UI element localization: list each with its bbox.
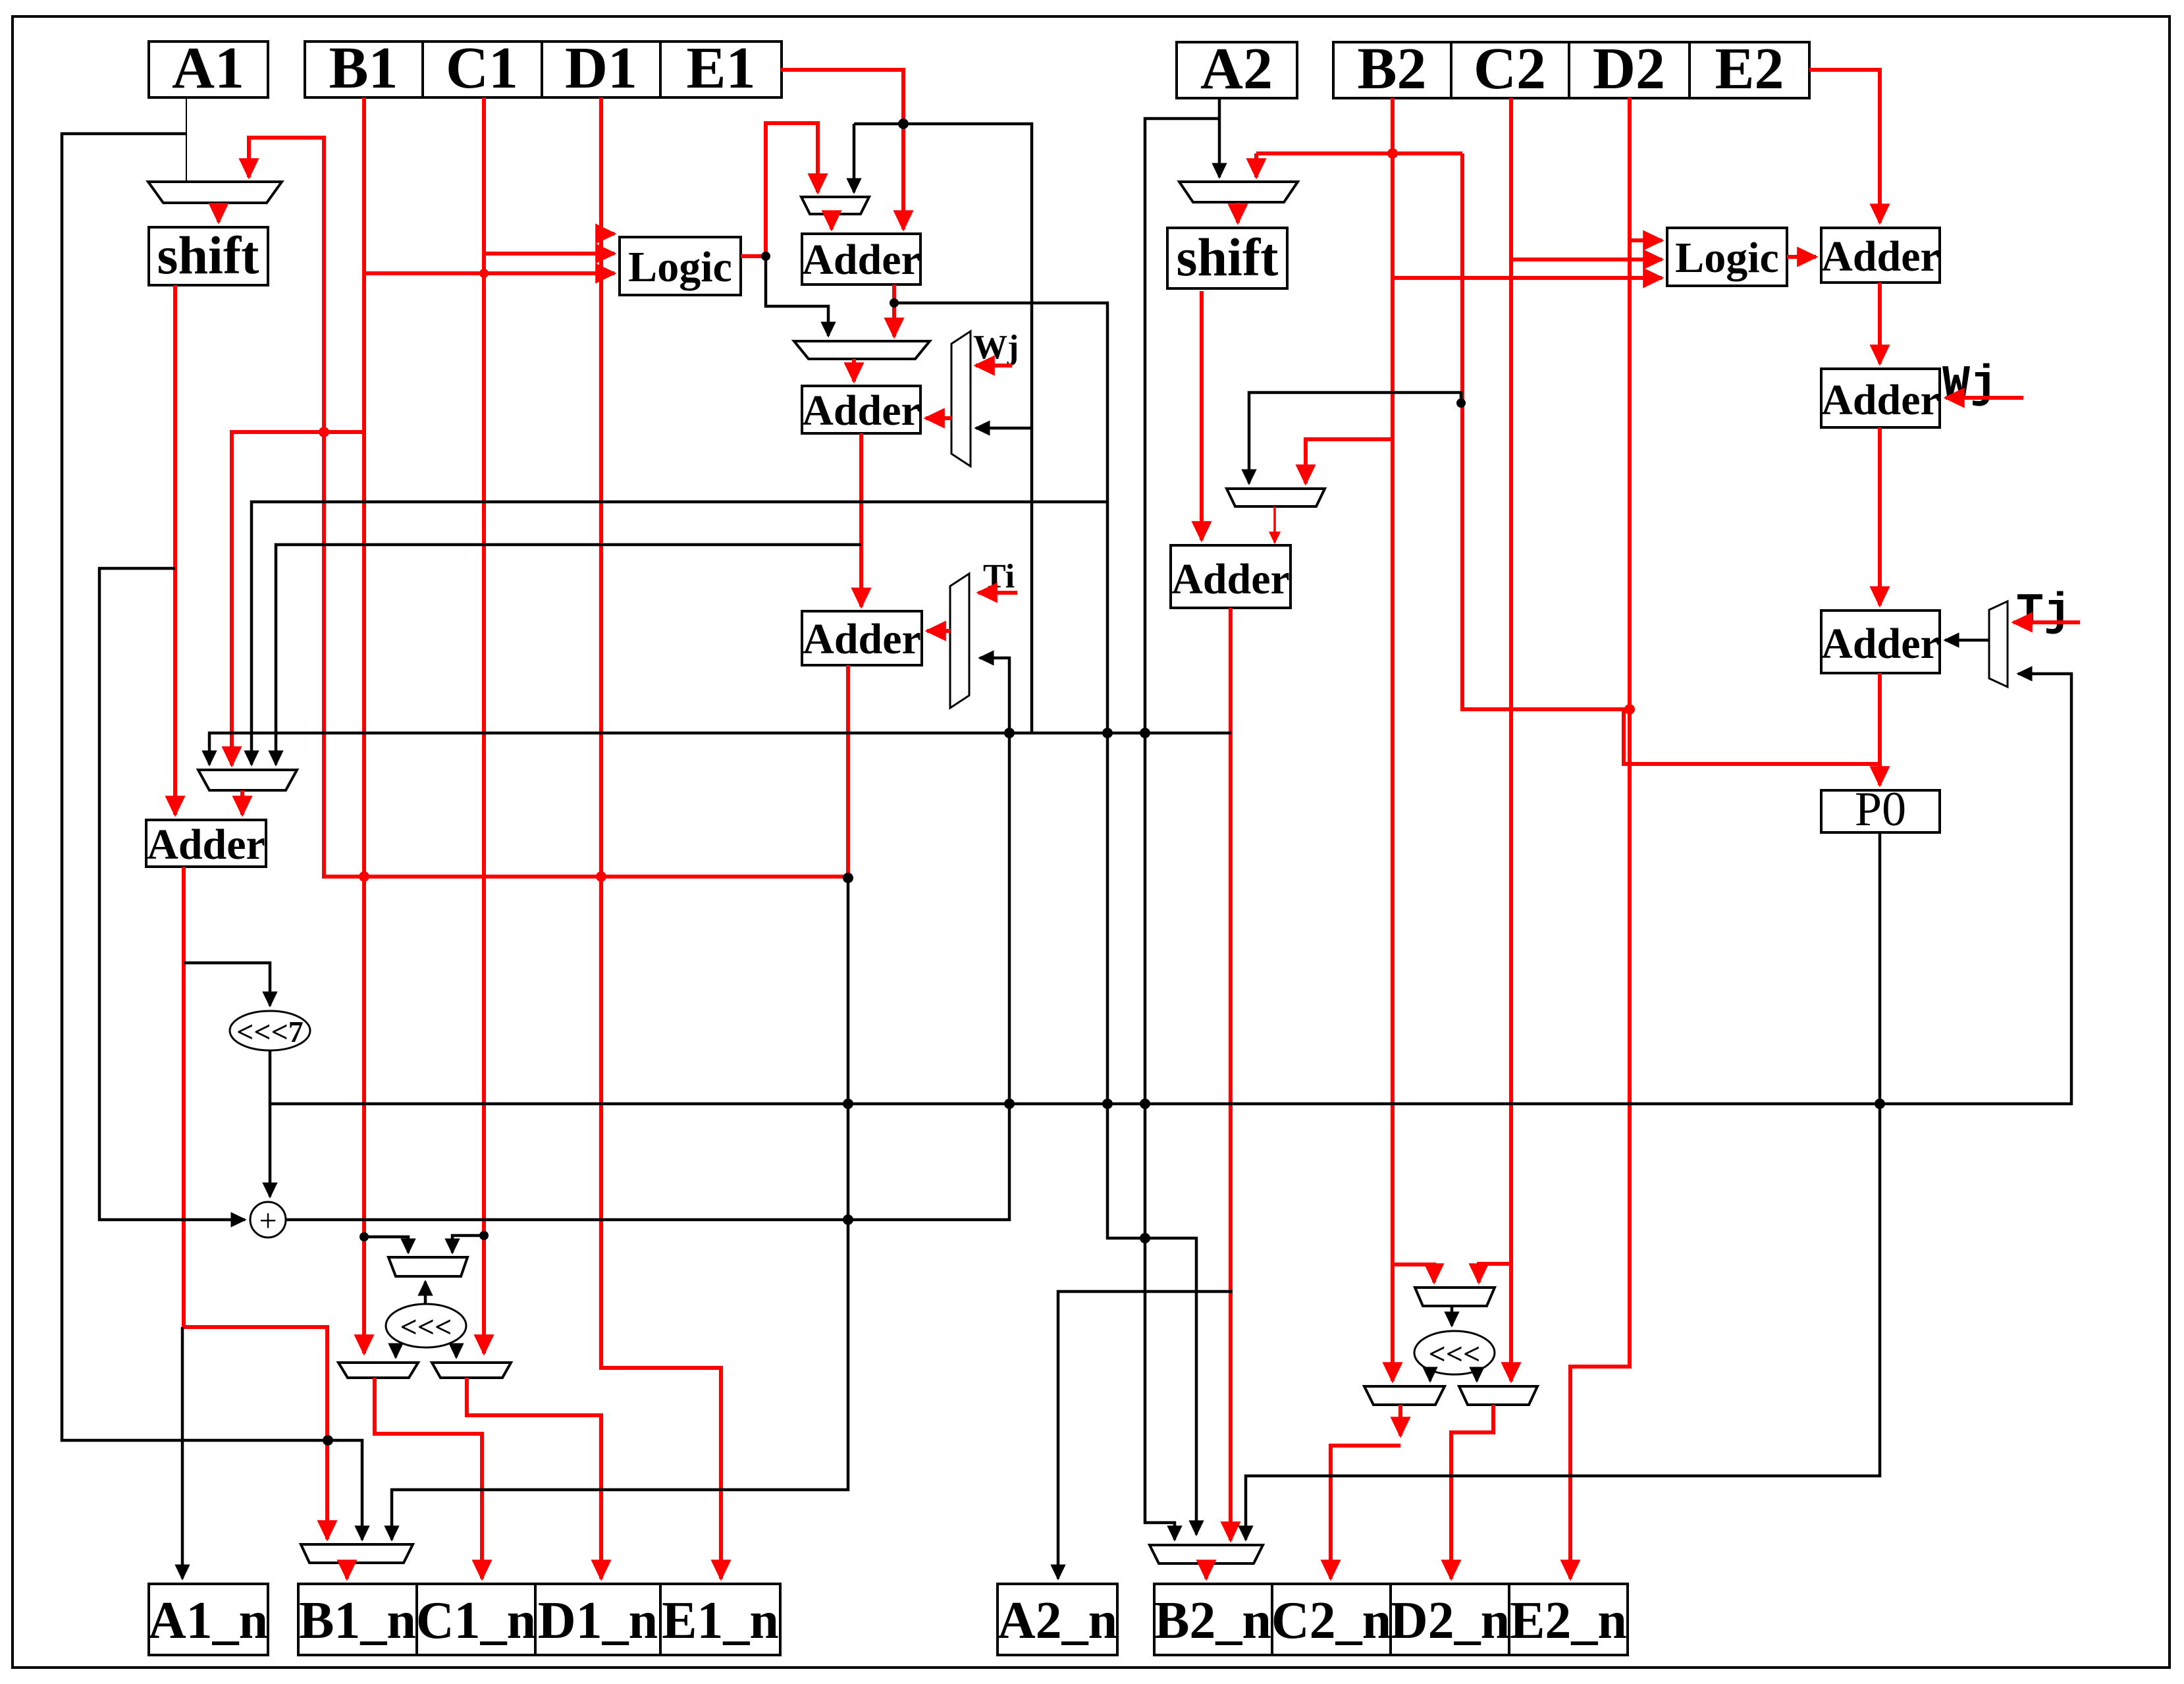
wire A1 stub to mux M1 xyxy=(186,97,187,182)
rotate left 7 unit xyxy=(230,1011,310,1050)
wire B1 tap to mux M7 input 1 xyxy=(364,1237,408,1253)
junction dot H3 at x1533 xyxy=(1004,1099,1015,1109)
svg-text:D1: D1 xyxy=(565,36,637,101)
wire C2 column xyxy=(1509,98,1513,1381)
shift unit right xyxy=(1167,227,1287,288)
junction dot B2 at 230 xyxy=(1387,148,1398,159)
svg-text:D2_n: D2_n xyxy=(1390,1592,1510,1650)
wire A1 branch down left side to mux M10 xyxy=(62,134,362,1540)
rotate left unit (right half) xyxy=(1414,1331,1495,1374)
wire Adder U6 output to Adder U7 xyxy=(1878,427,1882,605)
svg-text:D2: D2 xyxy=(1593,36,1665,101)
junction dot Logic branch corner xyxy=(761,252,770,261)
wire D1 tap to Logic input 1 xyxy=(601,232,614,236)
wire mux M16 output to Adder U3 xyxy=(927,629,950,633)
wire C2 tap to Logic right input 2 xyxy=(1511,258,1662,261)
svg-text:Adder: Adder xyxy=(803,615,921,663)
wire D1 column to E1_n xyxy=(601,97,721,1579)
svg-text:E2_n: E2_n xyxy=(1510,1592,1627,1650)
svg-text:B2_n: B2_n xyxy=(1154,1592,1271,1650)
register B1 xyxy=(305,36,423,101)
wire mux M1 output to shift left xyxy=(217,203,221,222)
register E2_n xyxy=(1509,1584,1628,1655)
wire Wj input left xyxy=(976,364,1012,367)
wire E2 to Adder U5 xyxy=(1809,70,1880,223)
wire plus output to mux M16 lower input xyxy=(286,658,1009,1220)
svg-text:A2: A2 xyxy=(1200,36,1273,101)
wire B2 tap to mux M11 input 1 xyxy=(1393,1264,1434,1282)
junction dot H3 at x1288 xyxy=(843,1099,853,1109)
junction dot mux M5 tap on B2 net xyxy=(1456,398,1466,408)
wire mux M17 output to Adder U7 xyxy=(1945,639,1989,642)
wire Adder U2 output to Adder U3 xyxy=(859,433,863,607)
wire B1 tap to mux M6 input 2 xyxy=(232,432,364,765)
junction dot mux M7 tap B1 xyxy=(360,1232,369,1241)
mux M8 (left, feeds C1_n) xyxy=(338,1363,418,1378)
mux M7 (left rotate select) xyxy=(388,1257,467,1276)
svg-text:A2_n: A2_n xyxy=(998,1592,1117,1650)
junction dot feedback at x1288 xyxy=(843,873,853,883)
wire Adder U3 output feedback to B1 net and mux M1 xyxy=(249,138,848,877)
wire B2 net tap to mux M5 input 1 xyxy=(1249,393,1461,483)
wire mux M3 output to Adder U1 xyxy=(830,214,834,229)
register D2 xyxy=(1569,36,1690,101)
wire P0 output to mux M14 input 4 xyxy=(1246,832,1880,1540)
mux M2 (A2 select) xyxy=(1179,182,1298,202)
register A1 xyxy=(149,36,268,101)
Adder U4 (left mid) xyxy=(146,820,266,869)
svg-text:shift: shift xyxy=(157,225,259,285)
register D1 xyxy=(542,36,660,101)
wire A1_n feed xyxy=(181,1327,184,1579)
Adder U7 (right Tj) xyxy=(1821,611,1940,673)
svg-text:+: + xyxy=(259,1203,277,1238)
Adder U1 (left top) xyxy=(802,234,920,285)
wire Logic left output to mux M3 xyxy=(741,123,818,256)
svg-text:A1: A1 xyxy=(172,36,244,101)
shift unit left xyxy=(149,225,268,285)
Logic unit left xyxy=(620,237,741,295)
mux M17 (Tj vertical mux) xyxy=(1989,601,2008,687)
svg-text:P0: P0 xyxy=(1855,782,1906,836)
wire mux M2 output to shift right xyxy=(1236,203,1240,223)
wire Adder U3 feedback branch to mux M10 input 3 xyxy=(392,878,848,1540)
junction dot H3 at P0 column xyxy=(1875,1099,1885,1109)
svg-text:A1_n: A1_n xyxy=(148,1592,268,1650)
register E1 xyxy=(660,36,782,101)
wire B2 tap to Logic right input 3 xyxy=(1393,276,1662,280)
mux M3 (small above Adder U1) xyxy=(801,197,869,214)
svg-text:<<<7: <<<7 xyxy=(236,1015,304,1048)
register C1_n xyxy=(416,1584,536,1655)
wire Ti input xyxy=(978,591,1017,595)
svg-text:C1: C1 xyxy=(446,36,518,101)
wire A2 branch to mux M14 input 1 xyxy=(1145,119,1219,1540)
wire B1 tap to Logic input 3 xyxy=(364,271,614,275)
junction dot H2 at x1533 xyxy=(1004,728,1015,738)
wire rotate 7 long feedback to mux M17 lower input xyxy=(270,674,2071,1104)
Adder U6 (right Wj) xyxy=(1821,369,1940,427)
rotate left unit (left half) xyxy=(386,1304,466,1347)
wire H2 cross feedback to mux M6 input 1 xyxy=(209,733,1231,765)
register A2 xyxy=(1177,36,1297,101)
wire A2 stub to mux M2 xyxy=(1218,98,1221,177)
wire mux M6 output to Adder U4 xyxy=(240,790,244,815)
wire mux M11 output to rotate right xyxy=(1451,1306,1454,1326)
wire A2_n feed from Adder U8 output net xyxy=(1058,1291,1233,1579)
wire Logic right output to Adder U5 xyxy=(1787,255,1816,259)
svg-text:Adder: Adder xyxy=(802,236,920,284)
junction dot B1 at feedback row xyxy=(359,871,369,882)
wire D2 tap to Logic right input 1 xyxy=(1630,238,1662,242)
mux M1 (A1 select) xyxy=(148,182,282,203)
mux M4 (wide above Adder U2) xyxy=(794,341,930,359)
wire rotate left to mux M7 reversed arrow xyxy=(424,1282,427,1305)
register E2 xyxy=(1690,36,1809,101)
junction dot B1 tap at 656 xyxy=(319,427,329,437)
svg-text:Wj: Wj xyxy=(973,329,1019,366)
wire Adder U1 output to mux M4 xyxy=(892,285,896,337)
wire E1 black branch to mux M3 input 2 xyxy=(853,124,856,192)
register E1_n xyxy=(660,1584,780,1655)
mux M13 (right, feeds D2_n) xyxy=(1459,1386,1537,1405)
Adder U3 (left Ti) xyxy=(802,611,922,665)
junction dot H2 at x1682 xyxy=(1102,728,1113,738)
wire rotate right output left branch to mux M12 xyxy=(1429,1373,1432,1381)
wire mux M6 input 3 xyxy=(252,502,1107,765)
mux M5 (above Adder U8) xyxy=(1227,489,1325,506)
wire mux M15 output to Adder U2 xyxy=(926,416,951,420)
wire B2 tap long branch to Adder U7 input net xyxy=(1256,153,1878,764)
wire Adder U8 output to mux M14 xyxy=(1229,608,1233,1540)
svg-text:Adder: Adder xyxy=(802,387,920,435)
wire mux M9 output to D1_n xyxy=(467,1378,601,1579)
svg-text:Adder: Adder xyxy=(1171,555,1290,603)
svg-text:<<<: <<< xyxy=(400,1310,452,1344)
svg-text:Ti: Ti xyxy=(983,558,1015,595)
wire rotate right output right branch to mux M13 xyxy=(1476,1373,1479,1381)
mux M11 (right rotate select) xyxy=(1415,1288,1495,1306)
wire branch to mux M15 lower input xyxy=(976,427,1032,430)
Adder U2 (left Wj) xyxy=(802,386,920,435)
wire mux M13 output to D2_n xyxy=(1451,1405,1493,1579)
wire C2 tap to mux M11 input 2 xyxy=(1479,1264,1511,1282)
wire mux M8 output to C1_n xyxy=(375,1378,482,1579)
junction dot Adder U1 branch xyxy=(890,298,899,308)
wire mux M10 output to B1_n xyxy=(345,1563,349,1579)
svg-text:Logic: Logic xyxy=(628,243,732,291)
wire shift-out tap to plus circle xyxy=(99,568,245,1220)
svg-text:D1_n: D1_n xyxy=(538,1592,658,1650)
register P0 xyxy=(1821,782,1940,836)
wire D2 column to E2_n xyxy=(1570,97,1630,1579)
wire B1 column xyxy=(362,97,366,1353)
Adder U5 (right top) xyxy=(1821,228,1940,283)
wire B2 column xyxy=(1391,98,1395,1381)
svg-text:Adder: Adder xyxy=(1821,376,1940,424)
wire mux M12 horizontal to C2_n xyxy=(1331,1446,1400,1579)
register B2_n xyxy=(1154,1584,1272,1655)
junction dot mux M7 tap C1 xyxy=(479,1231,489,1240)
register B2 xyxy=(1333,36,1451,101)
wire mux M14 output to B2_n xyxy=(1204,1563,1208,1579)
svg-text:B1_n: B1_n xyxy=(299,1592,416,1650)
svg-text:E1: E1 xyxy=(686,36,755,101)
svg-text:B2: B2 xyxy=(1357,36,1426,101)
wire Adder U7 output to P0 xyxy=(1878,673,1882,785)
junction dot A1 line at x498 xyxy=(323,1435,333,1446)
junction dot D1 at feedback row xyxy=(596,871,606,882)
mux M12 (right, feeds C2_n) xyxy=(1364,1386,1445,1405)
register A2_n xyxy=(998,1584,1117,1655)
junction dot B1 at Logic row crossing C1 xyxy=(479,269,489,278)
register C2 xyxy=(1451,36,1569,101)
svg-text:Adder: Adder xyxy=(1821,620,1940,668)
mux M16 (Ti vertical mux) xyxy=(950,574,969,708)
svg-text:C1_n: C1_n xyxy=(416,1592,536,1650)
register C2_n xyxy=(1271,1584,1391,1655)
wire rotate 7 output to plus circle xyxy=(269,1050,272,1197)
wire E1 black branch down to H2 xyxy=(854,124,1032,733)
junction dot plus-out at x1288 xyxy=(843,1214,853,1225)
register D1_n xyxy=(535,1584,660,1655)
Logic unit right xyxy=(1667,228,1787,286)
wire Tj input xyxy=(2013,620,2080,624)
wire C1 tap to mux M7 input 2 xyxy=(452,1236,484,1253)
wire rotate left output left branch to mux M8 xyxy=(394,1345,398,1357)
junction dot H3 at x1739 xyxy=(1140,1099,1150,1109)
Adder U8 (right mid) xyxy=(1171,545,1291,608)
svg-text:C2_n: C2_n xyxy=(1271,1592,1391,1650)
svg-text:Wj: Wj xyxy=(1942,359,1998,411)
wire mux M5 output to Adder U8 xyxy=(1273,506,1276,543)
junction dot H2 at x1739 xyxy=(1140,728,1150,738)
register D2_n xyxy=(1390,1584,1510,1655)
svg-text:E1_n: E1_n xyxy=(662,1592,779,1650)
mux M15 (Wj vertical mux) xyxy=(951,331,971,466)
wire mux M6 input 4 tap from Adder U2 output xyxy=(276,545,861,765)
wire Wj input right xyxy=(1946,396,2023,400)
mux M10 (B1_n select) xyxy=(301,1544,413,1563)
wire Adder U5 output to Adder U6 xyxy=(1878,283,1882,364)
register C1 xyxy=(423,36,542,101)
mux M6 (4-input, above Adder U4) xyxy=(198,770,297,790)
svg-text:Logic: Logic xyxy=(1675,234,1779,282)
register A1_n xyxy=(148,1584,268,1655)
junction dot E1 line xyxy=(898,119,909,129)
mux M9 (left, feeds D1_n) xyxy=(432,1363,511,1378)
wire Logic left branch to mux M4 input 1 xyxy=(766,256,828,336)
svg-text:E2: E2 xyxy=(1715,36,1784,101)
wire rotate left output right branch to mux M9 xyxy=(455,1345,458,1357)
adder node plus circle xyxy=(250,1202,286,1238)
wire Adder U1 branch to mux M14 input 2 xyxy=(894,303,1196,1535)
svg-text:shift: shift xyxy=(1177,227,1279,287)
wire Adder U4 output tap to rotate 7 xyxy=(184,963,270,1006)
wire B2 tap to mux M5 xyxy=(1306,439,1393,483)
wire shift left output to Adder U4 xyxy=(173,285,177,815)
register B1_n xyxy=(298,1584,417,1655)
svg-text:C2: C2 xyxy=(1474,36,1546,101)
junction dot D2 at 1077 xyxy=(1624,704,1635,715)
wire mux M12 output to C2_n xyxy=(1398,1405,1402,1436)
wire shift right output to Adder U8 xyxy=(1200,291,1204,540)
wire E1 to Adder U1 xyxy=(781,70,903,229)
junction dot x1739 at y1880 xyxy=(1140,1233,1150,1243)
svg-text:<<<: <<< xyxy=(1429,1337,1481,1371)
mux M14 (B2_n select) xyxy=(1150,1545,1263,1563)
wire mux M4 output to Adder U2 xyxy=(852,359,856,381)
svg-text:Adder: Adder xyxy=(1821,232,1940,281)
junction dot H3 at x1682 xyxy=(1102,1099,1113,1109)
wire C1 tap to Logic input 2 xyxy=(484,252,614,256)
svg-text:Tj: Tj xyxy=(2016,587,2071,639)
svg-text:B1: B1 xyxy=(329,36,398,101)
wire B2 tap to mux M2 xyxy=(1254,153,1258,177)
svg-text:Adder: Adder xyxy=(147,821,265,869)
wire Adder U4 output to mux M10 xyxy=(184,867,327,1539)
wire C1 column xyxy=(482,97,486,1353)
